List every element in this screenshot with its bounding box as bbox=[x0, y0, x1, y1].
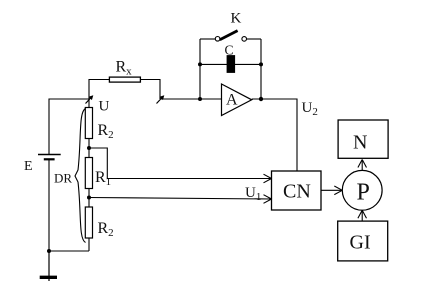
wire GI to P bbox=[361, 210, 363, 221]
svg-text:DR: DR bbox=[54, 171, 72, 186]
wire Rx detour left bbox=[89, 80, 109, 100]
wire top-left horizontal bbox=[49, 98, 90, 100]
svg-text:K: K bbox=[231, 11, 242, 27]
svg-text:N: N bbox=[353, 132, 367, 154]
svg-text:R2: R2 bbox=[98, 122, 114, 141]
wire battery vertical bbox=[48, 99, 50, 252]
arrowhead CN to P bbox=[334, 186, 342, 195]
ground bbox=[40, 251, 57, 281]
node cap right bbox=[259, 62, 263, 66]
svg-text:C: C bbox=[225, 43, 234, 58]
resistor Rx bbox=[109, 77, 140, 82]
wire K-loop right vertical bbox=[260, 39, 262, 99]
wire CN input 1 bbox=[89, 148, 272, 179]
wire K-loop left vertical bbox=[199, 39, 201, 99]
resistor R1 bbox=[85, 158, 92, 189]
wire divider stem top bbox=[88, 99, 90, 108]
svg-text:CN: CN bbox=[283, 181, 311, 203]
node tap2 bbox=[87, 196, 91, 200]
brace DR bbox=[75, 109, 86, 243]
arrowhead P to N bbox=[358, 160, 367, 168]
svg-text:Rx: Rx bbox=[116, 59, 133, 78]
svg-text:U1: U1 bbox=[245, 185, 261, 203]
block CN bbox=[272, 171, 322, 210]
wire amp output bbox=[252, 99, 297, 171]
switch K bbox=[200, 31, 261, 42]
block GI bbox=[338, 221, 388, 261]
resistor R2 upper bbox=[85, 108, 92, 139]
svg-text:U2: U2 bbox=[302, 100, 318, 118]
svg-text:R2: R2 bbox=[98, 220, 114, 239]
wire CN input 2 bbox=[89, 198, 272, 200]
wire CN to P bbox=[321, 189, 342, 191]
arrowhead GI to P bbox=[358, 210, 367, 218]
node cap left bbox=[198, 62, 202, 66]
node bottom junction bbox=[47, 249, 51, 253]
node wiper right bbox=[157, 95, 165, 103]
wire between R2 and R1 bbox=[88, 139, 90, 158]
wire capacitor row bbox=[200, 63, 261, 65]
battery E bbox=[38, 155, 61, 160]
capacitor C bbox=[227, 55, 236, 73]
svg-text:E: E bbox=[24, 159, 33, 174]
resistor R2 lower bbox=[85, 207, 92, 238]
wire to amplifier input bbox=[160, 98, 222, 100]
wire bottom bbox=[49, 250, 89, 252]
svg-text:U: U bbox=[99, 99, 110, 115]
wire Rx detour right bbox=[140, 80, 160, 100]
svg-text:P: P bbox=[357, 180, 370, 206]
svg-text:GI: GI bbox=[350, 232, 371, 254]
svg-text:A: A bbox=[226, 92, 238, 109]
block N bbox=[338, 120, 388, 158]
node amp input junction bbox=[198, 97, 202, 101]
node tap1 bbox=[87, 146, 91, 150]
node wiper left bbox=[86, 95, 94, 103]
op-amp A bbox=[222, 84, 252, 116]
meter P bbox=[342, 170, 382, 210]
arrowhead input 2 bbox=[264, 195, 272, 204]
wire divider stem bottom bbox=[88, 238, 90, 251]
wire P to N bbox=[361, 160, 363, 171]
wire between R1 and R2 bbox=[88, 189, 90, 208]
node amp output junction bbox=[259, 97, 263, 101]
arrowhead input 1 bbox=[264, 174, 272, 183]
